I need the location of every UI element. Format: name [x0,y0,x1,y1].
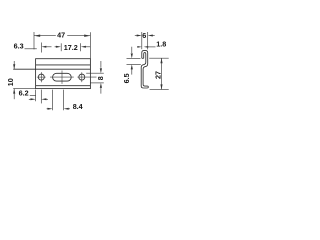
svg-text:6: 6 [142,31,146,40]
dim 10: bottom extension line [13,88,35,90]
dim 17.2: left outside arrow tail [55,46,57,48]
centerline hole H2 vertical [81,72,83,82]
svg-text:1.8: 1.8 [156,39,166,48]
dim 10: bottom arrow stem [13,89,15,100]
plate second inner line (shared with dim 10 extension) [13,68,90,70]
dim 6: left extension line [141,32,143,49]
centerline hole H1 horizontal [37,76,46,78]
dim 6.2: right arrow tail [46,98,48,100]
dim 6.2: left arrow tail [29,98,31,100]
plate outline (front view) [36,59,91,89]
dim 6.5: top arrow stem [131,47,133,53]
dim 6.2: left ext below plate (plate edge) [35,90,37,102]
dim 27: bottom arrowhead (down) [160,84,162,89]
dim 47: left arrowhead [34,35,40,37]
svg-text:8.4: 8.4 [73,102,83,111]
dim 1.8: left arrow at lip outer edge (pointing right) [137,46,142,48]
dim 17.2: left extension stub (slot centre ext) [60,43,62,51]
svg-text:47: 47 [57,31,65,40]
svg-text:17.2: 17.2 [64,43,78,52]
side view profile (Z-jogged hanging rail cross-section) [141,51,148,88]
dim 6.2: left outside arrow (pointing right) [31,98,36,100]
dim 17.2: right outside arrow tail [85,46,90,48]
centerline hole H2 horizontal (extends past plate edge) [77,76,96,78]
dim 8: top arrowhead (down) [100,68,102,73]
dim 6.2: leader line [30,95,36,97]
dim 8: bottom arrow stem [100,88,102,94]
dim 6: left arrow tail [135,35,137,37]
hole H1 left round hole [38,74,44,80]
svg-text:10: 10 [6,78,15,86]
dim 8: top arrow stem [100,61,102,68]
profile outer contour: lip, hook top, upper wall right, jog, lower wall, foot [142,51,148,87]
dim 6.3: arrow tail right [46,46,52,48]
svg-text:27: 27 [154,71,163,79]
hole H2 right round hole [79,74,85,80]
dim 1.8: right arrow at lip inner edge (pointing left) [144,46,149,48]
dim 10: bottom arrowhead (up) [13,89,15,94]
dim 47: right extension line (meets plate top corner) [89,32,91,59]
foot end cap [146,86,149,88]
profile inner contour [141,53,147,89]
dim 47: dimension line right part [67,35,90,37]
dim 17.2: right extension stub (hole2 centre ext) [80,43,82,51]
dim 47: right arrowhead [84,35,90,37]
dim 8.4: right arrow tail [68,108,70,110]
dim 6: right outside arrow (pointing left) [148,35,153,37]
dim 6.3: leader line to extension column [25,48,37,50]
svg-text:8: 8 [96,76,105,80]
dim 6: left outside arrow (pointing right) [137,35,142,37]
dim 47: left extension line [33,32,35,49]
dim 6: right extension line [147,32,149,49]
dim 6.2: right outside arrow (pointing left) [41,98,46,100]
dim 8.4: left ext below plate (slot left edge) [52,90,54,111]
dim 10: top arrowhead (down) [13,64,15,69]
dim 8: bottom extension line [90,82,103,84]
dim 17.2: left outside arrow (pointing right) [56,46,61,48]
dim 6.5: top arrowhead (down) [131,53,133,58]
centerline slot vertical [61,71,63,84]
dim 6.3: arrow at hole1 centre ext (pointing left) [42,46,47,48]
dim 6.5: top extension line (lip tip level) [127,57,141,59]
centerline slot horizontal [50,76,74,78]
dim 17.2: right outside arrow (pointing left) [81,46,86,48]
hook lip end cap [142,57,144,59]
dim 47: dimension line left part [34,35,56,37]
dim 27: top arrowhead (up) [160,58,162,63]
dim 1.8: leader line [148,46,156,48]
dim 10: top arrow stem [13,61,15,69]
dim 6: right arrow tail [152,35,154,37]
slot (obround) [53,73,72,81]
plate top inner line [36,64,91,66]
svg-text:6.5: 6.5 [122,73,131,83]
svg-text:6.3: 6.3 [14,41,24,50]
dim 6.5: bottom arrow stem [131,69,133,75]
dim 6.5: bottom extension line (jog shoulder level) [127,63,141,65]
svg-text:6.2: 6.2 [19,88,29,97]
dim 6.2: right ext below plate (hole1 centre) [40,90,42,104]
dim 8.4: left outside arrow (pointing right) [48,108,53,110]
plate bottom inner line [36,85,91,87]
hole1 centre extension stub (up) [41,43,43,53]
dim 27: bottom extension line [150,88,169,90]
dim 6.5: bottom arrowhead (up) [131,64,133,69]
dim 27: dimension line [161,58,163,89]
dim 8.4: right ext below plate [63,90,65,111]
dim 8: bottom arrowhead (up) [100,83,102,88]
dim 8.4: right outside arrow (pointing left) [64,108,69,110]
centerline hole H1 vertical [40,72,42,82]
dim 8: top extension line (slot top level) [86,72,104,74]
dim 27: top extension line [149,57,169,59]
dim 8.4: left arrow tail [47,108,48,110]
